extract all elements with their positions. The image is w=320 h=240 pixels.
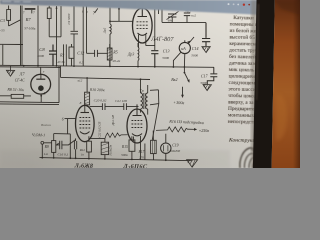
- transformer Tr2: [140, 78, 148, 114]
- tube L2 cathode: [132, 134, 142, 136]
- resistor R12: [87, 136, 92, 158]
- tube L4 anode and top cap: [138, 5, 148, 16]
- capacitor feed-through with node PG2: [184, 13, 190, 22]
- capacitor C8: [49, 45, 57, 66]
- tube L4 G-807 envelope: [133, 8, 153, 43]
- capacitor electrolytic box with hatch: [89, 139, 109, 159]
- node +300v arrow: [181, 87, 184, 98]
- tube L2 grids: [132, 121, 143, 128]
- tube L4 cathode: [138, 33, 148, 35]
- wire verticals right of tube: [155, 9, 162, 50]
- tube L2 6P6S envelope: [127, 109, 147, 143]
- milliammeter MA: [179, 40, 190, 67]
- wire: double vertical feed left: [21, 6, 23, 66]
- small screen icon dots: [228, 3, 251, 6]
- bus: main horizontal supply bus y~66: [0, 65, 214, 67]
- node pin 7 marks: [25, 8, 36, 13]
- microphone input node ChOM-1: [32, 132, 46, 138]
- resistor R7 label: [24, 17, 36, 31]
- node junction dots on bus: [23, 65, 186, 68]
- tube L1 6Zh8 envelope: [76, 105, 95, 141]
- faint photo grain tint: [0, 0, 300, 168]
- capacitor C20: [90, 103, 105, 110]
- wire: arrow to meter: [189, 37, 194, 43]
- wire: grid feed to tube L4: [110, 7, 133, 21]
- tube L4 grids: [137, 22, 149, 29]
- modulator box right edge: [58, 66, 60, 103]
- capacitor C19 electrolytic: [161, 134, 171, 161]
- caption fragment: [41, 123, 51, 127]
- wire: pot top link: [54, 134, 71, 159]
- potentiometer R9: [52, 134, 60, 158]
- choke Dr2: [109, 8, 111, 67]
- resistor R10 hatched box: [85, 77, 90, 107]
- resistor R8 horizontal with label: [0, 94, 31, 98]
- capacitor C3 label: [0, 18, 5, 33]
- faint light marks in band: [2, 1, 31, 3]
- capacitor C21: [105, 103, 139, 110]
- tube L1 caption: [74, 162, 94, 170]
- wire verticals with pin labels 8 2: [83, 6, 86, 66]
- wire: enclosure edge right section: [150, 90, 159, 141]
- node pin 8 top of tube L1: [84, 100, 86, 113]
- node dots bottom bus: [41, 157, 166, 161]
- capacitor block bottom right: [151, 131, 157, 160]
- tube L4 label: [150, 36, 174, 44]
- wire: tube L2 bottom leads: [134, 136, 141, 160]
- TEXT_COLUMN: [227, 15, 262, 144]
- resistor R3 box: [69, 44, 74, 66]
- switch Vk2: [184, 67, 190, 82]
- ground for C17: [203, 85, 211, 91]
- tube L1 anode: [81, 112, 90, 114]
- wire vertical x56.5: [56, 6, 58, 66]
- resistor R5 hatched box: [107, 44, 112, 66]
- blue-grey screen band at top: [0, 0, 258, 15]
- resistor R16 zigzag to +250v: [156, 127, 197, 132]
- capacitor C14: [202, 23, 210, 47]
- resistor R16 adjustment label: [168, 119, 204, 126]
- tube L7 SG-4S stabilizer circle: [31, 67, 51, 102]
- paper background: [0, 0, 300, 168]
- page edge shadow before bezel: [251, 0, 257, 168]
- capacitor C16: [56, 140, 76, 150]
- tube L1 grids: [80, 118, 91, 129]
- wire: bus link vertical: [60, 66, 62, 77]
- tube L7 SG-4S labels: [15, 72, 26, 83]
- ground for C14: [202, 47, 210, 53]
- resistor R14 zigzag: [105, 133, 128, 139]
- node marks top right of tube L4: [184, 8, 191, 14]
- capacitor cathode bypass small: [74, 138, 76, 158]
- trimmer capacitor C15: [167, 11, 179, 22]
- resistor R1 vertical box: [47, 6, 61, 37]
- resistor R17 label: [138, 150, 145, 159]
- capacitor C12: [87, 50, 108, 57]
- wire: second lower bus left half: [0, 66, 60, 69]
- wire: meter diagonal tap: [173, 52, 180, 67]
- node label v12: [78, 79, 83, 83]
- rotated label C22 between tubes: [98, 122, 103, 138]
- capacitor C17 with ground: [207, 67, 217, 84]
- wire: top horizontal link: [162, 21, 206, 23]
- wire: tube L4 bottom leads: [139, 34, 155, 47]
- wire: tube L1 grid pin 6: [65, 119, 76, 134]
- orange-brown background right edge: [272, 0, 300, 168]
- capacitor C9 with vertical label: [71, 6, 79, 66]
- modulator box bottom edge double line: [0, 102, 59, 105]
- SCHEMATIC_GROUP: [0, 5, 214, 160]
- black monitor bezel band: [253, 0, 275, 168]
- node pin 7 arrow mid: [95, 8, 98, 13]
- tube L2 anode: [133, 104, 142, 115]
- node input terminal: [41, 141, 44, 144]
- wire: grid bus across middle: [61, 77, 151, 79]
- wire: tank bundle verticals: [64, 44, 67, 66]
- wire vertical x38: [37, 6, 39, 66]
- capacitor C13: [151, 51, 158, 67]
- ground at bottom bus: [187, 160, 198, 168]
- tube L2 caption: [122, 163, 148, 171]
- choke Dr3: [137, 43, 140, 67]
- dark blurry engraving figure bottom-right on paper: [240, 146, 257, 168]
- ground inside modulator box: [6, 66, 14, 76]
- wire: top-left corner link: [0, 44, 23, 65]
- bottom ground bus: [40, 158, 193, 161]
- rotated label Dr4: [111, 114, 115, 126]
- resistor R15: [129, 136, 135, 159]
- wire: terminal to pot and bus: [42, 143, 51, 158]
- tube L1 cathode: [80, 132, 90, 134]
- resistor R6 top-left vertical: [7, 6, 21, 27]
